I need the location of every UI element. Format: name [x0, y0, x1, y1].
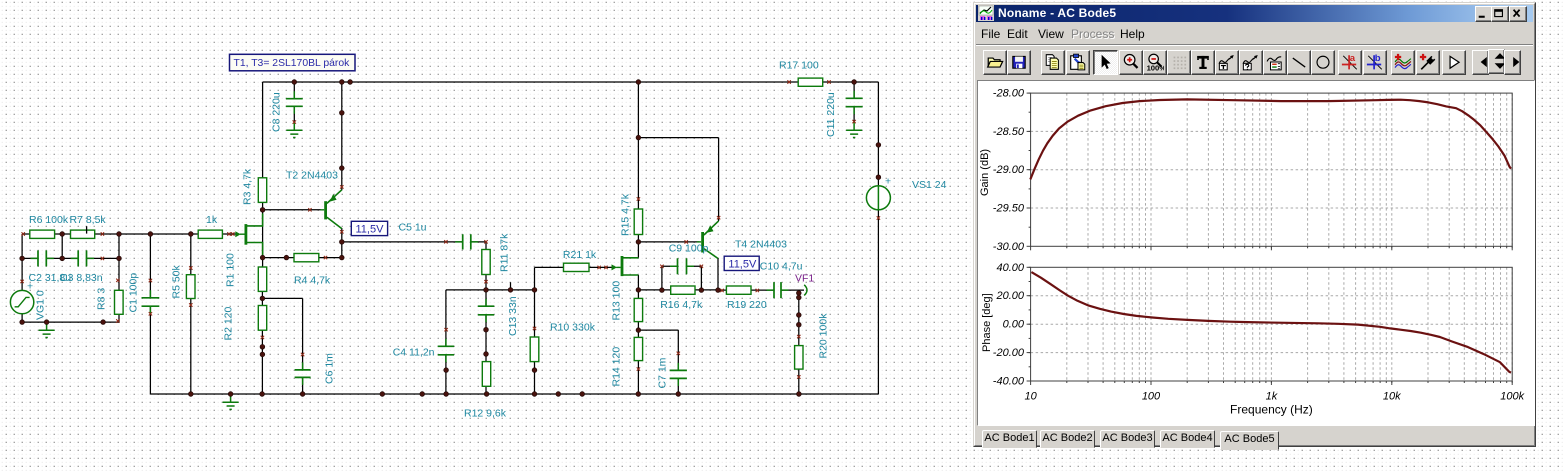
junction gnd C6 — [300, 392, 305, 397]
capacitor C5 — [463, 234, 471, 249]
wire C6 column x=303 — [302, 298, 304, 394]
svg-text:R2 120: R2 120 — [223, 306, 235, 340]
application window "Noname - AC Bode5" — [973, 2, 1536, 447]
wire C6 tap row y=298 — [262, 297, 302, 299]
junction VG1/C2 — [20, 256, 25, 261]
gain curve — [1030, 99, 1511, 179]
wire VG1 column x=22 — [21, 234, 23, 322]
resistor R11 — [482, 250, 490, 275]
svg-text:C13 33n: C13 33n — [507, 296, 519, 336]
svg-text:1k: 1k — [206, 214, 218, 226]
svg-text:-28.50: -28.50 — [993, 126, 1025, 138]
svg-text:R17 100: R17 100 — [779, 60, 819, 72]
toolbar button copy — [1041, 50, 1065, 75]
resistor R-1k — [198, 230, 222, 238]
wire T2 base wire y=210 — [263, 209, 321, 211]
ground GND C11 — [846, 122, 862, 137]
svg-text:100k: 100k — [1500, 391, 1524, 403]
toolbar button ellipse — [1311, 50, 1335, 75]
junction rail/R15 — [636, 80, 641, 85]
resistor R3 — [258, 178, 266, 203]
ground GND input — [39, 322, 55, 337]
junction gnd b — [420, 392, 425, 397]
wire C11 stub — [853, 82, 855, 98]
pin marks (component terminals) — [20, 80, 880, 378]
svg-text:R11 87k: R11 87k — [499, 233, 511, 272]
wire T3 drain link — [637, 242, 639, 258]
junction gnd R5 — [188, 392, 193, 397]
R7 wiper mark — [86, 226, 88, 233]
svg-text:20.00: 20.00 — [995, 290, 1024, 302]
svg-text:R4 4,7k: R4 4,7k — [294, 275, 331, 287]
junction node/R10 — [532, 288, 537, 293]
wire C11 lower stub — [853, 107, 855, 122]
junction rail/R8 — [117, 232, 122, 237]
toolbar button zoom in — [1119, 50, 1143, 75]
source VG1 (generator) — [10, 281, 33, 314]
svg-text:10: 10 — [1024, 391, 1037, 403]
capacitor C6 — [295, 370, 311, 378]
wire R21 row y=267 — [535, 266, 614, 268]
junction C2/C3 — [60, 256, 65, 261]
junction R15/T4 branch — [636, 135, 641, 140]
window title bar — [976, 5, 1533, 22]
wire R2 bottom wire — [261, 330, 263, 394]
transistor T4 2N4403 (PNP) — [697, 221, 719, 259]
wire C9 right stub — [687, 266, 701, 290]
plot grid — [1031, 93, 1513, 381]
wire R20 column x=799 — [798, 290, 800, 394]
junction gnd sym — [228, 392, 233, 397]
capacitor C13 — [478, 306, 494, 315]
resistor R4 — [294, 254, 319, 262]
resistor R13 — [634, 298, 642, 321]
wire R4 row y=258 — [263, 257, 342, 259]
tab strip — [976, 428, 1533, 447]
wire C1 column x=150 — [149, 234, 151, 394]
ground GND C8 — [286, 122, 302, 137]
wire R11-C13-R12 column x=486 — [485, 242, 487, 394]
svg-text:R1 100: R1 100 — [225, 253, 237, 287]
transistor T3 2SL170BL (JFET) — [612, 256, 639, 276]
resistor R16 — [671, 286, 695, 294]
toolbar button page right — [1504, 50, 1521, 75]
capacitor C7 — [670, 370, 687, 378]
phase curve — [1031, 272, 1511, 373]
svg-text:VF1: VF1 — [795, 273, 814, 285]
wire R16 row y=290 — [638, 289, 718, 291]
wire C8 lower stub — [293, 107, 295, 123]
resistor R20 — [795, 346, 803, 370]
junction R12 wire — [484, 352, 489, 357]
wire R1-R2 link — [261, 267, 263, 306]
junction C4 bottom — [444, 368, 449, 373]
svg-text:R10 330k: R10 330k — [550, 322, 596, 334]
toolbar button page left — [1472, 50, 1489, 75]
toolbar button grid (disabled) — [1167, 50, 1191, 75]
toolbar button paste — [1066, 50, 1090, 75]
junction rail/R5 — [188, 232, 193, 237]
gain plot frame — [1031, 93, 1513, 246]
resistor R15 — [634, 209, 642, 235]
resistor R14 — [634, 337, 642, 360]
wire stub x=510 — [510, 282, 512, 290]
junction T4 coll/R19 — [716, 288, 721, 293]
svg-text:R8 3: R8 3 — [96, 288, 108, 310]
wire R3 column x=263 — [262, 82, 264, 226]
axis ticks — [1027, 93, 1513, 385]
transistor T2 2N4403 (PNP) — [320, 190, 341, 229]
svg-text:C7 1m: C7 1m — [657, 357, 669, 388]
svg-text:Gain (dB): Gain (dB) — [979, 149, 991, 196]
junction R2 wire b — [260, 352, 265, 357]
junction C13/R12 — [484, 327, 489, 332]
junction VG1 bottom — [20, 320, 25, 325]
resistor R2 — [258, 306, 266, 331]
wire T2 emitter column — [341, 82, 343, 190]
toolbar — [976, 44, 1533, 80]
wire tap x=62 — [61, 234, 63, 258]
wire C7 column x=678 — [677, 330, 679, 394]
junction R11/C13 — [484, 288, 489, 293]
svg-text:VG1 0: VG1 0 — [35, 290, 47, 320]
resistor R19 — [726, 286, 751, 294]
junction R1/R2/C6 — [260, 296, 265, 301]
diagram panel with plots — [977, 80, 1535, 426]
junction C9/R16 right — [699, 288, 704, 293]
svg-text:T1, T3= 2SL170BL párok: T1, T3= 2SL170BL párok — [234, 58, 351, 69]
junction gnd tap — [44, 320, 49, 325]
junction R13/R14/C7 — [636, 328, 641, 333]
resistor R12 — [482, 362, 490, 387]
toolbar button cursor a — [1338, 50, 1362, 75]
junction stub — [508, 288, 513, 293]
junction R6/R7 — [60, 232, 65, 237]
junction R4 left — [260, 255, 265, 260]
junction gnd R10 — [532, 392, 537, 397]
wire T4 emitter branch y=138 — [638, 137, 718, 139]
svg-text:R15 4,7k: R15 4,7k — [620, 193, 632, 236]
capacitor C2 — [38, 250, 46, 266]
junction VF1 node b — [796, 295, 801, 300]
wire T4 collector column — [717, 258, 719, 290]
resistor R10 — [530, 337, 539, 362]
resistor R17 — [798, 78, 823, 86]
toolbar button cursor b — [1363, 50, 1387, 75]
svg-text:a: a — [1350, 53, 1356, 64]
svg-text:1k: 1k — [1266, 391, 1278, 403]
toolbar button page up/down — [1488, 49, 1505, 74]
wire ground rail y=394 — [150, 393, 878, 395]
junction gnd R20 — [797, 392, 802, 397]
wire T1 drain-source column — [262, 226, 264, 267]
junction T2 coll/C5 — [339, 240, 344, 245]
wire input ground rail y=322 — [22, 321, 119, 323]
wire C9 left stub — [662, 266, 677, 290]
svg-text:R20 100k: R20 100k — [818, 313, 830, 359]
svg-text:11,5V: 11,5V — [356, 224, 385, 236]
toolbar button open file — [983, 50, 1007, 75]
wire capacitor row y=258 — [22, 257, 119, 259]
junction T2 col b — [339, 166, 344, 171]
capacitor C10 — [774, 282, 781, 298]
junction C3/R8 — [117, 256, 122, 261]
junction VS1 top — [876, 175, 881, 180]
junction gnd C4 — [444, 392, 449, 397]
wire C4 column x=446 — [445, 290, 447, 394]
svg-text:10k: 10k — [1383, 391, 1401, 403]
wire input top rail y=234 — [22, 233, 237, 235]
capacitor C4 — [438, 346, 454, 355]
svg-text:-30.00: -30.00 — [993, 241, 1025, 253]
svg-text:R19 220: R19 220 — [727, 299, 767, 311]
junction gnd R12 — [484, 392, 489, 397]
wire C8 stub — [293, 82, 295, 98]
junction rail/C8 — [292, 80, 297, 85]
capacitor C1 — [142, 298, 160, 306]
svg-text:-29.50: -29.50 — [993, 203, 1025, 215]
junction R20 wire b — [796, 322, 801, 327]
svg-text:R16 4,7k: R16 4,7k — [660, 299, 703, 311]
resistor R5 — [186, 275, 195, 299]
wire T2 collector column — [341, 228, 343, 258]
toolbar button pick curve — [1416, 50, 1440, 75]
junction R2 wire a — [260, 344, 265, 349]
toolbar button line — [1287, 50, 1311, 75]
svg-text:R3 4,7k: R3 4,7k — [242, 168, 254, 205]
svg-text:R5 50k: R5 50k — [171, 264, 183, 298]
svg-text:T2 2N4403: T2 2N4403 — [286, 170, 338, 182]
junction gnd C7 — [676, 392, 681, 397]
menu bar — [976, 24, 1533, 43]
svg-text:-29.00: -29.00 — [993, 164, 1025, 176]
toolbar button text — [1191, 50, 1215, 75]
junction rail/T2 — [339, 80, 344, 85]
svg-text:0.00: 0.00 — [1003, 319, 1025, 331]
junction R4 right — [339, 255, 344, 260]
svg-text:R13 100: R13 100 — [611, 281, 623, 321]
toolbar button curve legend — [1263, 50, 1287, 75]
junction gnd R14 — [636, 392, 641, 397]
svg-text:+: + — [885, 176, 891, 188]
svg-text:R6 100k: R6 100k — [29, 214, 69, 226]
junction C9/R16 left — [660, 288, 665, 293]
capacitor C11 — [846, 98, 863, 106]
transistor T1 2SL170BL (JFET) — [235, 214, 262, 256]
svg-text:C11 220u: C11 220u — [825, 92, 837, 137]
wire node row y=290 — [446, 289, 535, 291]
wire C7 tap row y=330 — [638, 329, 678, 331]
toolbar button run — [1442, 50, 1466, 75]
svg-text:C4 11,2n: C4 11,2n — [393, 347, 435, 359]
toolbar button curve label — [1215, 50, 1239, 75]
junction gnd a — [380, 392, 385, 397]
wire R15 column x=638 — [637, 82, 639, 242]
wire R8 column x=119 — [118, 234, 120, 322]
svg-text:Frequency (Hz): Frequency (Hz) — [1230, 403, 1313, 417]
wire R10 column x=534 — [534, 267, 536, 394]
svg-text:R7 8,5k: R7 8,5k — [70, 214, 107, 226]
svg-text:C10 4,7u: C10 4,7u — [760, 261, 803, 273]
probe VF1 output pin — [804, 285, 807, 296]
source VS1 (battery) — [866, 176, 891, 210]
svg-text:C1 100p: C1 100p — [128, 273, 140, 313]
svg-text:C5 1u: C5 1u — [399, 222, 427, 234]
junction T2 col a — [339, 110, 344, 115]
svg-text:11,5V: 11,5V — [728, 258, 757, 270]
wire C5 row y=242 — [342, 241, 486, 243]
resistor R8 — [115, 290, 124, 314]
svg-text:-20.00: -20.00 — [993, 347, 1025, 359]
svg-text:40.00: 40.00 — [996, 262, 1024, 274]
svg-text:C6 1m: C6 1m — [324, 353, 336, 384]
svg-text:C8 220u: C8 220u — [271, 92, 283, 132]
wire T4 emitter column x=719 — [718, 138, 720, 221]
wire output row y=290 — [718, 289, 804, 291]
junction rail seg — [348, 80, 353, 85]
junction R10 bottom — [532, 368, 537, 373]
svg-text:-40.00: -40.00 — [993, 376, 1025, 388]
node voltage label 11,5V (T2 collector) — [351, 221, 387, 235]
wire T4 base row y=242 — [638, 241, 699, 243]
capacitor C9 — [678, 258, 687, 274]
svg-text:100: 100 — [1142, 391, 1161, 403]
svg-text:-28.00: -28.00 — [993, 88, 1025, 100]
junction R15/T3/T4 base — [636, 240, 641, 245]
phase plot frame — [1031, 267, 1513, 381]
capacitor C3 — [78, 250, 86, 266]
ground GND main — [223, 394, 239, 409]
wire supply rail y=82 — [263, 81, 879, 83]
junction R4 wire — [284, 255, 289, 260]
toolbar button save — [1007, 50, 1031, 75]
junction input rail — [101, 320, 106, 325]
svg-text:R14 120: R14 120 — [611, 347, 623, 387]
junction rail/C11 — [852, 80, 857, 85]
toolbar button curve query — [1239, 50, 1263, 75]
svg-text:Phase [deg]: Phase [deg] — [981, 293, 993, 352]
junction gnd R2 — [260, 392, 265, 397]
junction gnd c — [556, 392, 561, 397]
toolbar button add curves — [1391, 50, 1415, 75]
resistor R21 — [564, 263, 590, 271]
junction R20 wire a — [796, 313, 801, 318]
junction VS1 col — [876, 143, 881, 148]
junction gnd d — [580, 392, 585, 397]
note box T1,T3 pair — [230, 54, 356, 71]
svg-text:R21 1k: R21 1k — [563, 249, 597, 261]
resistor R6 — [30, 230, 55, 238]
svg-text:T4 2N4403: T4 2N4403 — [735, 239, 787, 251]
wire VS1 column x=878 — [877, 82, 879, 394]
capacitor C8 — [286, 99, 303, 107]
svg-text:R12 9,6k: R12 9,6k — [464, 408, 507, 420]
junction VF1 node a — [796, 291, 801, 296]
toolbar button select cursor (pressed) — [1093, 50, 1118, 75]
svg-text:100%: 100% — [1147, 63, 1164, 71]
svg-text:C3 8,83n: C3 8,83n — [60, 272, 103, 284]
svg-text:VS1 24: VS1 24 — [912, 179, 947, 191]
svg-text:C9 100p: C9 100p — [669, 243, 709, 255]
toolbar button zoom 100% — [1143, 50, 1167, 75]
junction rail/C1 — [148, 232, 153, 237]
junction R3/base — [260, 207, 265, 212]
node voltage label 11,5V (T4) — [724, 256, 759, 270]
wire R5 column x=191 — [190, 234, 192, 394]
junction T3 src/R13 — [636, 288, 641, 293]
wire T3 source / R13-R14 column — [637, 275, 639, 394]
resistor R7 — [71, 230, 95, 238]
svg-text:b: b — [1375, 53, 1381, 64]
resistor R1 — [258, 267, 266, 291]
